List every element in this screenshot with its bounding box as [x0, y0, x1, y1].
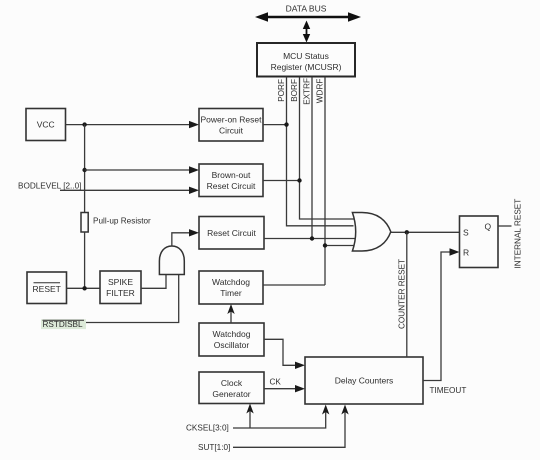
- svg-text:TIMEOUT: TIMEOUT: [430, 386, 467, 395]
- svg-text:Brown-out: Brown-out: [212, 170, 251, 180]
- register U1 MCU Status Register (MCUSR): [257, 43, 355, 77]
- svg-text:Watchdog: Watchdog: [213, 329, 251, 339]
- wire spike filter output to AND gate: [141, 274, 166, 288]
- block U9 Spike Filter: [100, 271, 141, 304]
- block U4 Reset Circuit: [199, 217, 264, 250]
- wire watchdog oscillator to delay counters: [264, 339, 305, 369]
- junction VCC branch dot: [82, 122, 86, 126]
- block U3 Brown-out Reset Circuit: [199, 164, 263, 197]
- junction brown-out output dot: [297, 178, 301, 182]
- block U5 Watchdog Timer: [199, 271, 263, 304]
- junction power-on output dot: [284, 122, 288, 126]
- svg-text:CKSEL[3:0]: CKSEL[3:0]: [186, 424, 229, 433]
- wire resistor to RESET net: [84, 232, 86, 288]
- node RESET pin box: [27, 272, 67, 304]
- svg-text:COUNTER RESET: COUNTER RESET: [398, 259, 407, 329]
- svg-text:Delay Counters: Delay Counters: [335, 376, 394, 386]
- svg-text:CK: CK: [270, 378, 282, 387]
- wire SUT to delay counters: [233, 405, 349, 448]
- svg-text:Power-on Reset: Power-on Reset: [201, 115, 263, 125]
- wire vertical double arrow MCUSR to data bus: [303, 21, 310, 43]
- junction reset circuit output dot: [310, 236, 314, 240]
- svg-text:Register (MCUSR): Register (MCUSR): [271, 62, 342, 72]
- svg-text:INTERNAL RESET: INTERNAL RESET: [514, 199, 523, 269]
- svg-text:EXTRF: EXTRF: [303, 78, 312, 105]
- node RSTDISBL label: [41, 319, 86, 329]
- wire AND gate output to reset circuit: [172, 229, 199, 246]
- wire BORF net: [300, 77, 355, 219]
- svg-text:BORF: BORF: [290, 79, 299, 102]
- wire COUNTER RESET to delay counters: [406, 232, 408, 357]
- svg-text:Circuit: Circuit: [219, 126, 244, 136]
- resistor R1 pull-up: [81, 213, 151, 233]
- wire TIMEOUT delay counters to latch R: [423, 248, 460, 380]
- junction counter reset dot: [405, 230, 409, 234]
- block U6 Watchdog Oscillator: [199, 323, 264, 356]
- svg-text:Reset Circuit: Reset Circuit: [207, 181, 256, 191]
- svg-text:S: S: [463, 228, 469, 238]
- svg-text:BODLEVEL [2..0]: BODLEVEL [2..0]: [18, 181, 81, 190]
- wire EXTRF net: [311, 77, 313, 239]
- wire power-on reset output to PORF: [263, 124, 287, 126]
- wire VCC branch to brown-out reset circuit: [85, 166, 199, 173]
- wire CK clock generator to delay counters: [264, 385, 305, 392]
- wire brown-out reset output to BORF: [263, 180, 300, 182]
- svg-text:SPIKE: SPIKE: [108, 277, 133, 287]
- wire Q output INTERNAL RESET: [498, 225, 512, 227]
- wire PORF net: [287, 77, 354, 226]
- svg-text:Clock: Clock: [221, 378, 243, 388]
- wire VCC to power-on reset circuit: [66, 121, 200, 128]
- svg-text:WDRF: WDRF: [316, 79, 325, 104]
- wire WDRF branch to gate: [325, 245, 355, 247]
- wire watchdog timer output to WDRF: [263, 284, 325, 286]
- svg-text:Q: Q: [485, 222, 492, 232]
- svg-text:MCU Status: MCU Status: [283, 51, 329, 61]
- wire VCC rail down to resistor: [84, 125, 86, 213]
- svg-text:RESET: RESET: [33, 284, 61, 294]
- svg-text:VCC: VCC: [37, 120, 55, 130]
- gate U11 OR (reset sources): [352, 213, 390, 252]
- gate U10 AND (reset enable): [159, 246, 184, 275]
- wire CKSEL to clock generator and delay counters: [233, 404, 329, 429]
- block U8 Delay Counters: [305, 357, 423, 404]
- wire WDRF net: [324, 77, 326, 285]
- wire DATA BUS horizontal double arrow: [255, 12, 361, 22]
- svg-text:DATA BUS: DATA BUS: [286, 4, 327, 14]
- wire reset circuit output to EXTRF and gate: [264, 238, 355, 240]
- svg-text:Generator: Generator: [212, 389, 250, 399]
- latch U12 SR latch: [460, 216, 499, 268]
- wire OR gate output to latch S: [391, 231, 460, 233]
- svg-text:PORF: PORF: [277, 79, 286, 102]
- junction WDRF branch dot: [323, 243, 327, 247]
- block U7 Clock Generator: [199, 372, 264, 404]
- svg-text:FILTER: FILTER: [106, 288, 135, 298]
- svg-text:SUT[1:0]: SUT[1:0]: [198, 443, 230, 452]
- junction VCC rail brown-out branch dot: [82, 168, 86, 172]
- node VCC: [26, 109, 66, 141]
- svg-text:Watchdog: Watchdog: [212, 277, 250, 287]
- svg-text:RSTDISBL: RSTDISBL: [43, 320, 83, 329]
- svg-text:Oscillator: Oscillator: [214, 340, 250, 350]
- svg-text:Timer: Timer: [220, 288, 242, 298]
- block U2 Power-on Reset Circuit: [199, 109, 263, 142]
- wire BODLEVEL to brown-out reset circuit: [60, 187, 199, 194]
- wire RSTDISBL to AND gate: [86, 274, 179, 323]
- svg-text:R: R: [463, 247, 469, 257]
- svg-text:Reset Circuit: Reset Circuit: [207, 228, 256, 238]
- wire watchdog oscillator to watchdog timer: [227, 304, 234, 323]
- junction RESET pull-up dot: [82, 286, 86, 290]
- svg-text:Pull-up Resistor: Pull-up Resistor: [93, 217, 151, 226]
- wire RESET pin to spike filter: [67, 287, 101, 289]
